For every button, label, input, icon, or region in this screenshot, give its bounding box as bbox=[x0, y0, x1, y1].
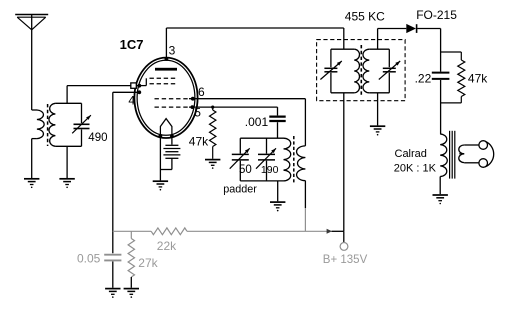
wire avc bus gray bbox=[113, 230, 151, 232]
grid row 2 (dashed) bbox=[150, 83, 177, 85]
svg-text:padder: padder bbox=[223, 183, 257, 195]
variable capacitor 50 (padder) bbox=[230, 138, 250, 181]
ground filament bbox=[153, 181, 168, 190]
battery (filament A-battery) bbox=[163, 145, 180, 158]
wire pin 3 riser bbox=[165, 28, 167, 59]
IF transformer dashed box bbox=[317, 40, 406, 101]
node 47k junction bbox=[211, 106, 214, 109]
headphones bbox=[479, 141, 494, 168]
wire antenna to T1 primary bbox=[32, 109, 37, 111]
svg-text:.22: .22 bbox=[415, 71, 432, 85]
capacitor 0.05 bbox=[104, 255, 121, 288]
wire IF left tank bottom bbox=[331, 92, 354, 94]
label 47k left bbox=[189, 135, 209, 149]
wire padder ground stub bbox=[277, 181, 279, 201]
node filament right junction bbox=[170, 134, 174, 138]
IF transformer core bbox=[360, 45, 362, 96]
IF trimmer capacitor right bbox=[379, 49, 400, 93]
svg-text:27k: 27k bbox=[138, 256, 158, 270]
ground IF transformer bbox=[370, 126, 385, 135]
svg-text:20K : 1K: 20K : 1K bbox=[394, 162, 437, 174]
label 0.05 bbox=[77, 251, 101, 265]
oscillator transformer core bbox=[293, 136, 295, 183]
svg-text:47k: 47k bbox=[468, 71, 488, 85]
wire pin 6 lead bbox=[189, 98, 305, 100]
svg-text:3: 3 bbox=[169, 44, 176, 58]
wire grid cap lead bbox=[67, 85, 131, 87]
variable capacitor 490 bbox=[72, 103, 91, 146]
label 190 bbox=[261, 164, 279, 176]
svg-text:47k: 47k bbox=[189, 135, 209, 149]
wire tickler down black bbox=[304, 181, 306, 208]
label pin 5 bbox=[194, 105, 201, 119]
wire B+ terminal stub bbox=[343, 231, 345, 242]
transformer T1 core bbox=[47, 104, 49, 146]
grid cap terminal (square) bbox=[131, 83, 137, 88]
label 22k bbox=[157, 239, 177, 253]
label B+ 135V bbox=[323, 254, 368, 266]
ground padder bbox=[270, 202, 285, 211]
ground 47k bbox=[205, 160, 220, 169]
svg-text:0.05: 0.05 bbox=[77, 251, 101, 265]
svg-text:Calrad: Calrad bbox=[395, 148, 427, 160]
grid row 1 (dashed) bbox=[150, 77, 177, 79]
svg-text:190: 190 bbox=[261, 164, 279, 176]
wire phones bottom lead bbox=[464, 162, 479, 164]
svg-text:4: 4 bbox=[128, 93, 135, 107]
wire avc bus gray right bbox=[187, 230, 327, 232]
wire battery to left leg bbox=[160, 158, 172, 169]
svg-text:6: 6 bbox=[198, 85, 205, 99]
node grid cap junction bbox=[137, 84, 141, 88]
wire filament left leg bbox=[159, 136, 161, 181]
svg-text:1C7: 1C7 bbox=[120, 37, 144, 52]
wire phones top lead bbox=[464, 144, 479, 146]
wire tank top bbox=[55, 102, 81, 104]
wire pin 4 lead bbox=[113, 91, 140, 93]
plate (anode) bbox=[155, 68, 177, 71]
label .22 bbox=[415, 71, 432, 85]
resistor 47k (detector load) bbox=[441, 52, 465, 103]
svg-text:.001: .001 bbox=[245, 115, 269, 129]
svg-text:490: 490 bbox=[88, 132, 107, 144]
node pin 4 junction bbox=[137, 90, 141, 94]
transformer T1 secondary bbox=[49, 103, 55, 146]
resistor 27k bbox=[128, 231, 134, 287]
variable capacitor 190 (padder) bbox=[256, 138, 276, 181]
label FO-215 bbox=[416, 8, 457, 22]
wire IF primary bottom to B+ bbox=[343, 93, 345, 232]
output transformer primary (Calrad) bbox=[440, 134, 447, 177]
label padder bbox=[223, 183, 257, 195]
arrowhead on B+ bus bbox=[327, 229, 332, 234]
node B+ terminal bbox=[340, 243, 348, 251]
capacitor .001 bbox=[269, 107, 285, 138]
filament bbox=[160, 119, 172, 135]
label pin 4 bbox=[128, 93, 135, 107]
wire tickler down gray bbox=[304, 208, 306, 231]
output transformer secondary bbox=[459, 145, 464, 163]
node filament left junction bbox=[159, 134, 163, 138]
wire pin4 drop bbox=[112, 92, 114, 253]
node pin 6 junction bbox=[191, 97, 195, 101]
output transformer core bbox=[450, 131, 455, 179]
ground antenna primary bbox=[24, 179, 39, 188]
IF trimmer capacitor left bbox=[320, 49, 341, 93]
label 27k bbox=[138, 256, 158, 270]
wire tank bottom bbox=[55, 145, 81, 147]
svg-text:FO-215: FO-215 bbox=[416, 8, 457, 22]
wire padder top bbox=[240, 137, 283, 139]
label 455 KC bbox=[345, 10, 385, 24]
wire plate to IF primary bbox=[166, 28, 343, 49]
wire Calrad primary to ground bbox=[439, 177, 441, 195]
label 20K : 1K bbox=[394, 162, 437, 174]
svg-text:B+ 135V: B+ 135V bbox=[323, 254, 368, 266]
ground 0.05 bbox=[105, 289, 120, 298]
label 47k right bbox=[468, 71, 488, 85]
wire pin6 to tickler bbox=[304, 99, 306, 146]
node pin 3 junction bbox=[165, 57, 169, 61]
transformer T1 primary (antenna coil) bbox=[32, 110, 44, 178]
wire pin 5 lead bbox=[189, 106, 278, 108]
wire tank top riser to grid cap bbox=[66, 86, 68, 104]
label pin 3 bbox=[169, 44, 176, 58]
wire tank bottom to ground bbox=[66, 146, 68, 178]
ground 27k bbox=[124, 289, 139, 298]
wire IF ground stub bbox=[377, 93, 379, 126]
label 490 bbox=[88, 132, 107, 144]
wire IF secondary output riser bbox=[378, 29, 407, 50]
svg-text:22k: 22k bbox=[157, 239, 177, 253]
label 1C7 bbox=[120, 37, 144, 52]
wire IF left tank top bbox=[331, 48, 354, 50]
grid row 4 (dashed) bbox=[155, 106, 190, 108]
wire IF right tank bottom bbox=[369, 92, 389, 94]
tube V1 1C7 envelope bbox=[134, 58, 197, 138]
wire diode to detector load bbox=[417, 29, 440, 72]
grid row 3 (dashed) bbox=[155, 98, 190, 100]
label .001 bbox=[245, 115, 269, 129]
wire padder bottom bbox=[240, 180, 283, 182]
IF primary coil bbox=[354, 49, 359, 93]
grid bracket bbox=[136, 78, 146, 85]
label Calrad bbox=[395, 148, 427, 160]
wire B+ bus black bbox=[332, 230, 344, 232]
label 50 bbox=[239, 164, 252, 176]
IF secondary coil bbox=[363, 49, 369, 93]
wire filament right leg bbox=[171, 136, 173, 145]
capacitor .22 bbox=[432, 73, 450, 135]
svg-text:455 KC: 455 KC bbox=[345, 10, 385, 24]
node pin 5 junction bbox=[190, 105, 194, 109]
resistor 22k bbox=[151, 228, 187, 235]
antenna bbox=[15, 15, 48, 111]
svg-text:50: 50 bbox=[239, 164, 252, 176]
ground Calrad bbox=[433, 195, 448, 204]
ground tank bbox=[59, 179, 74, 188]
oscillator transformer secondary (tickler) bbox=[297, 146, 306, 181]
oscillator transformer primary bbox=[284, 138, 291, 181]
wire IF right tank top bbox=[369, 48, 389, 50]
resistor 47k (oscillator grid leak) bbox=[210, 107, 216, 159]
diode FO-215 bbox=[406, 24, 416, 33]
label pin 6 bbox=[198, 85, 205, 99]
